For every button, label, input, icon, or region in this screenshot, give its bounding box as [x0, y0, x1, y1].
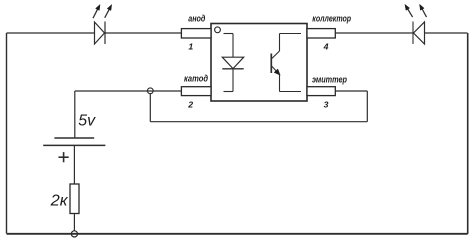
svg-text:5v: 5v [78, 113, 96, 130]
label эмиттер [312, 74, 347, 85]
pin number 3 [324, 100, 329, 110]
svg-text:4: 4 [323, 41, 329, 51]
internal LED of optocoupler [222, 34, 243, 92]
svg-text:коллектор: коллектор [312, 13, 351, 24]
pin number 2 [187, 99, 193, 109]
wire top left [7, 32, 95, 34]
svg-text:катод: катод [184, 74, 208, 85]
pin 4 lead box [307, 29, 335, 38]
wire resistor to bottom rail [73, 214, 75, 231]
pin number 1 [188, 42, 193, 52]
wire bottom rail [7, 233, 468, 235]
pin 3 lead box [307, 87, 335, 96]
svg-text:анод: анод [188, 14, 205, 25]
wire pin3 right [335, 90, 367, 92]
node bottom junction [71, 231, 77, 237]
pin 1 lead box [181, 29, 211, 38]
optocoupler U1 body [211, 24, 307, 102]
wire D2 to right rail [425, 32, 468, 34]
svg-text:3: 3 [324, 100, 329, 110]
svg-text:2: 2 [187, 99, 193, 109]
battery B1 [43, 138, 105, 162]
LED D1 (left indicator) [93, 5, 112, 45]
label коллектор [312, 13, 351, 24]
label 2к [50, 193, 69, 210]
label 5v [78, 113, 96, 130]
pin 2 lead box [181, 87, 211, 96]
resistor R1 [70, 184, 79, 214]
wire left rail [6, 33, 8, 234]
internal phototransistor of optocoupler [271, 34, 301, 92]
LED D2 (right indicator) [405, 4, 427, 44]
svg-text:2к: 2к [50, 193, 69, 210]
label анод [188, 14, 205, 25]
wire return rise to cathode node [149, 94, 151, 122]
svg-text:эмиттер: эмиттер [312, 74, 347, 85]
wire pin2 to battery branch [75, 90, 182, 92]
label катод [184, 74, 208, 85]
node cathode junction [147, 88, 153, 94]
wire pin4 to D2 [335, 32, 413, 34]
wire D1 to pin1 [105, 32, 181, 34]
pin number 4 [323, 41, 329, 51]
wire emitter drop [366, 91, 368, 122]
wire right rail [467, 33, 469, 234]
wire battery to resistor [73, 145, 75, 184]
svg-text:1: 1 [188, 42, 193, 52]
pin 1 indicator dot [215, 27, 221, 33]
wire emitter return [150, 121, 367, 123]
wire down to battery [74, 91, 76, 138]
